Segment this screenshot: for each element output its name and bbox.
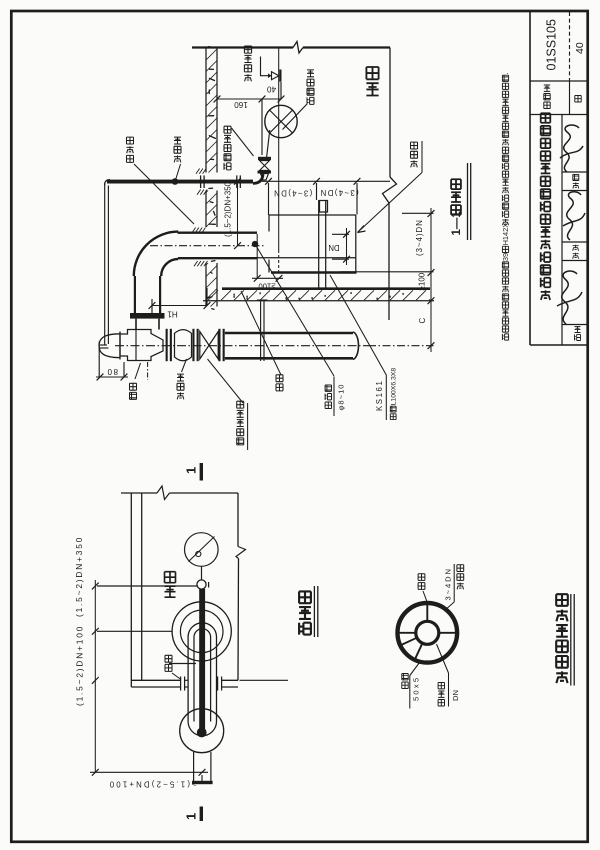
svg-text:01SS105: 01SS105 <box>545 19 559 70</box>
svg-text:DN: DN <box>328 243 339 252</box>
svg-text:(1.5~2)DN+100: (1.5~2)DN+100 <box>75 625 85 706</box>
svg-text:80: 80 <box>106 367 118 376</box>
svg-text:(3~4)DN: (3~4)DN <box>319 188 358 197</box>
svg-text:(3~4)DN: (3~4)DN <box>415 219 424 256</box>
svg-text:40: 40 <box>267 85 277 94</box>
svg-text:L100X6.3X8: L100X6.3X8 <box>391 368 398 406</box>
svg-text:.: . <box>501 72 510 74</box>
svg-text:H1: H1 <box>167 310 178 319</box>
svg-text:40: 40 <box>574 42 586 54</box>
svg-text:DN: DN <box>451 690 460 701</box>
svg-text:KS161: KS161 <box>375 380 384 411</box>
svg-text:39: 39 <box>501 253 510 261</box>
svg-text:H142X: H142X <box>501 223 510 246</box>
svg-text:≥100: ≥100 <box>417 272 426 290</box>
svg-text:(1.5~2)DN+350: (1.5~2)DN+350 <box>223 181 232 237</box>
svg-text:(3~4)DN: (3~4)DN <box>273 189 312 198</box>
svg-text:φ8~10: φ8~10 <box>336 383 345 410</box>
svg-text:C: C <box>418 318 427 324</box>
svg-text:160: 160 <box>234 100 248 109</box>
svg-text:50x5: 50x5 <box>411 676 420 701</box>
svg-text:1: 1 <box>184 813 199 820</box>
svg-text:1: 1 <box>184 467 199 474</box>
svg-text:3~4DN: 3~4DN <box>444 567 453 600</box>
svg-text:(1.5~2)DN+350: (1.5~2)DN+350 <box>74 536 84 617</box>
svg-text:≥(1.5~2)DN+100: ≥(1.5~2)DN+100 <box>108 780 197 789</box>
